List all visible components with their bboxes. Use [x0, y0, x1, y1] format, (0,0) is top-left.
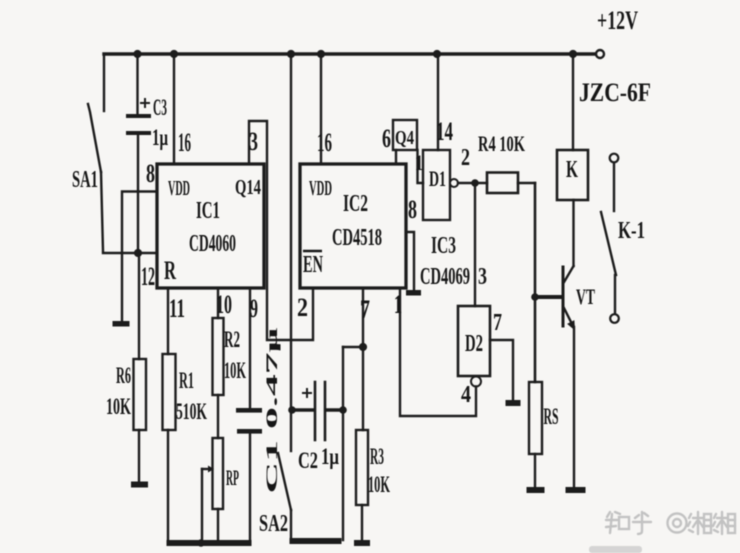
wire: IC1 pin 16 from rail [173, 54, 175, 163]
svg-text:7: 7 [360, 295, 370, 324]
svg-text:VDD: VDD [168, 176, 190, 200]
wire: horizontal to IC1 pin 12 [103, 252, 157, 254]
ground rail segment left [167, 540, 252, 546]
wire: rail down to C2 left (crosses pin2 wire) [290, 54, 292, 410]
wire: D1 output down to D2 input [474, 183, 476, 306]
inverter D1 (IC3) box [423, 150, 450, 220]
switch SA2 blade [278, 453, 291, 510]
switch SA1 blade [88, 104, 101, 172]
transistor VT collector diagonal [564, 266, 574, 283]
resistor R6 [134, 359, 147, 430]
svg-text:510K: 510K [176, 399, 207, 424]
wire: junction down to R6 [138, 253, 140, 359]
ground bar below R6 [131, 482, 148, 488]
node: rail junction at IC1 pin16 [170, 50, 178, 58]
ground bar below IC2 pin 8 [406, 290, 421, 296]
wire: C2 right lead [326, 408, 343, 411]
wire: relay K coil from rail [572, 54, 574, 150]
node: wiper junction on ground rail [197, 539, 205, 547]
wire: D2 pin 4 loop to IC2 pin 1 [400, 289, 476, 416]
svg-text:K-1: K-1 [618, 218, 645, 244]
svg-text:1: 1 [415, 150, 423, 175]
node: +12V terminal circle [596, 50, 604, 58]
svg-text:C1 0.47μ: C1 0.47μ [264, 327, 281, 494]
wire: K-1 bottom lead [614, 275, 616, 314]
svg-text:CD4518: CD4518 [332, 225, 382, 251]
svg-text:16: 16 [317, 128, 332, 157]
node: rail junction at IC2 pin16 [317, 50, 325, 58]
svg-text:14: 14 [436, 117, 453, 146]
wire: RS bottom to ground [534, 454, 536, 488]
svg-text:8: 8 [408, 195, 417, 224]
svg-text:10K: 10K [368, 472, 390, 497]
svg-text:6: 6 [382, 124, 391, 153]
resistor R2 [213, 318, 224, 395]
capacitor C1 top plate [236, 408, 262, 413]
wire: emitter down to ground [573, 327, 575, 487]
watermark blur blob bottom [589, 546, 642, 553]
svg-text:D2: D2 [465, 331, 483, 357]
svg-text:R: R [164, 256, 176, 285]
svg-text:2: 2 [297, 293, 308, 322]
node: rail junction at C2 branch [287, 50, 295, 58]
svg-text:RS: RS [544, 404, 559, 429]
resistor RS [529, 382, 542, 454]
svg-text:11: 11 [169, 294, 185, 323]
relay contact K-1 top terminal [610, 154, 619, 163]
svg-text:C2: C2 [298, 448, 318, 473]
wire: IC2 pin 7 down to R3 [362, 288, 364, 430]
wire: IC1 pin 8 connection [122, 192, 157, 322]
transistor VT emitter diagonal with arrow [564, 307, 573, 324]
node: junction C2 left [288, 406, 296, 414]
inverter D1 output bubble [450, 179, 458, 187]
svg-text:JZC-6F: JZC-6F [579, 78, 651, 107]
svg-text:IC3: IC3 [431, 233, 456, 259]
wire: base wire to VT [535, 295, 561, 299]
svg-text:C3: C3 [153, 95, 167, 120]
svg-text:IC2: IC2 [343, 191, 368, 217]
capacitor C2 left plate [314, 382, 317, 440]
svg-text:+12V: +12V [597, 6, 638, 35]
wire: SA2 bottom to ground rail [290, 510, 292, 539]
relay contact K-1 blade [601, 212, 616, 275]
svg-text:R4 10K: R4 10K [478, 131, 525, 156]
wire: IC1 pin 3 loop to IC2 pin 2 [249, 121, 313, 340]
wire: R3 bottom to ground bar [361, 505, 363, 540]
node: rail junction at IC3 pin14 [433, 50, 441, 58]
node: junction C3/R6 on SA1 wire [134, 249, 142, 257]
wire: IC2 pin 16 from rail [320, 54, 322, 163]
svg-text:2: 2 [461, 145, 470, 171]
wire: IC2 pin 8 to ground [406, 232, 414, 290]
ground rail segment right [290, 538, 342, 544]
wire: R6 bottom to ground [138, 430, 140, 482]
svg-text:SA2: SA2 [259, 511, 288, 537]
svg-text:R1: R1 [179, 368, 194, 393]
wire: IC1 pin 10 down to R2 [217, 288, 219, 318]
wire: branch from IC2 pin7 line to C2 [343, 346, 363, 348]
wire: R4 to base drop line [518, 182, 535, 184]
wire: collector up to relay K [572, 200, 574, 266]
relay contact K-1 bottom terminal [610, 314, 619, 323]
capacitor C1 bottom plate [237, 429, 262, 434]
wire: IC1 pin 9 down to C1 [249, 288, 251, 408]
wire: RP wiper down to ground rail [201, 469, 203, 543]
wire: C3 bottom down to junction [137, 135, 139, 253]
wire: SA1 bottom to junction [101, 172, 103, 251]
svg-text:1: 1 [394, 290, 402, 319]
resistor R4 [487, 173, 518, 194]
ground bar below RS [527, 487, 545, 493]
capacitor C3 top plate [126, 114, 151, 118]
capacitor C2 right plate [324, 382, 327, 440]
svg-text:16: 16 [178, 128, 191, 157]
svg-text:VDD: VDD [309, 176, 332, 200]
svg-text:7: 7 [493, 310, 502, 336]
svg-text:R2: R2 [224, 327, 240, 352]
svg-text:10K: 10K [224, 358, 246, 383]
inverter D2 bottom bubble [471, 377, 481, 387]
potentiometer RP wiper arrow [202, 468, 208, 470]
capacitor C3 plus sign [141, 99, 149, 107]
wire: IC1 pin 11 down to R1 [167, 288, 169, 354]
svg-text:CD4060: CD4060 [189, 231, 236, 257]
wire: SA2 top from C2 junction [290, 410, 292, 451]
node: rail junction at relay K [569, 50, 577, 58]
wire: C2 left lead [291, 408, 314, 411]
ground bar below D2 output [506, 400, 521, 406]
op-amp/IC box U2: IC2 CD4518 [300, 164, 406, 288]
node: rail junction at C3 [133, 50, 141, 58]
wire: +12V top supply rail [104, 52, 597, 55]
relay K coil box [557, 150, 588, 200]
wire: Q4 box to IC3 D1 input [418, 150, 424, 183]
svg-text:D1: D1 [429, 166, 446, 191]
svg-text:VT: VT [576, 284, 595, 309]
svg-text:Q4: Q4 [395, 127, 414, 149]
svg-text:K: K [566, 157, 578, 183]
wire: RP bottom to ground rail [217, 509, 219, 543]
watermark zhihu @xiangxiang [606, 512, 735, 534]
wire: drop to transistor base and RS [534, 183, 537, 382]
svg-text:R3: R3 [370, 444, 384, 469]
svg-text:RP: RP [226, 465, 239, 490]
node: junction D1 output [471, 179, 479, 187]
svg-text:10K: 10K [106, 394, 131, 419]
wire: C1 bottom to ground rail [249, 433, 251, 541]
node: junction on pin7 line [359, 343, 367, 351]
svg-text:1μ: 1μ [321, 444, 339, 469]
wire: C2 right junction down to ground rail [342, 347, 344, 540]
ground bar below emitter [566, 487, 586, 493]
node: junction base wire [531, 293, 539, 301]
resistor R3 [356, 430, 368, 505]
svg-text:SA1: SA1 [72, 167, 98, 193]
ground bar below pin8 wire [113, 321, 130, 327]
svg-text:Q14: Q14 [235, 175, 261, 199]
svg-text:1μ: 1μ [152, 125, 168, 150]
wire: C3 top from rail [136, 54, 138, 114]
capacitor C2 plus sign [303, 389, 311, 397]
wire: IC2 pin 6 stub to Q4 box [395, 150, 397, 164]
node: junction C2 right [339, 406, 347, 414]
svg-text:4: 4 [461, 382, 471, 408]
svg-text:9: 9 [250, 294, 258, 323]
svg-text:10: 10 [216, 290, 232, 319]
op-amp/IC box U1: IC1 CD4060 [157, 164, 264, 288]
ground bar under R3 [354, 540, 370, 546]
potentiometer RP body [213, 438, 224, 509]
capacitor C3 bottom plate [126, 131, 151, 135]
svg-text:8: 8 [146, 159, 155, 188]
svg-text:R6: R6 [116, 363, 131, 388]
svg-text:12: 12 [141, 262, 155, 291]
inverter D2 box [458, 306, 490, 376]
wire: rail left end down to SA1 [103, 54, 105, 111]
svg-text:EN: EN [303, 252, 323, 278]
node Q4: output label box [393, 120, 417, 150]
wire: IC3 D1 pin 14 from rail [437, 54, 439, 150]
wire: R2 bottom to RP top [217, 395, 219, 438]
resistor R1 [163, 354, 176, 430]
svg-text:IC1: IC1 [196, 198, 220, 224]
svg-text:CD4069: CD4069 [420, 264, 470, 290]
wire: D2 output pin 7 to ground [490, 340, 513, 400]
wire: R1 bottom to ground rail [167, 430, 169, 541]
wire: D1 output to R4 [458, 182, 487, 184]
svg-text:3: 3 [478, 264, 487, 290]
transistor VT base bar [562, 267, 565, 326]
wire: K-1 top lead [613, 163, 615, 211]
svg-text:3: 3 [249, 127, 258, 156]
